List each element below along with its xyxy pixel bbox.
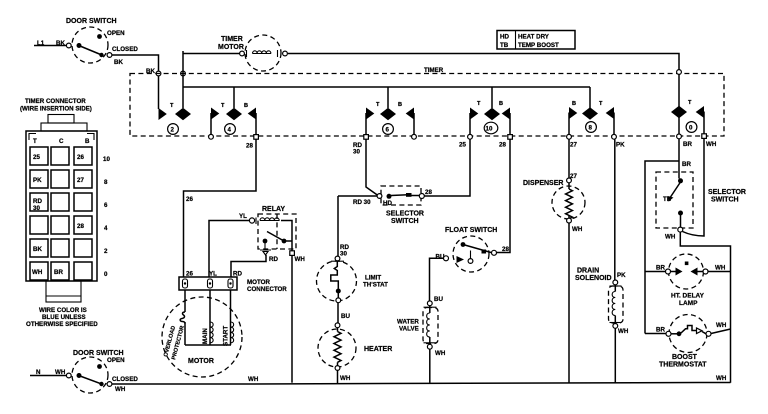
door switch blade (closed position) — [80, 46, 104, 57]
wire: top feed line left segment — [183, 53, 240, 55]
svg-text:WH: WH — [715, 265, 726, 272]
svg-text:30: 30 — [353, 149, 360, 156]
selector TB top contact — [678, 178, 683, 183]
wire: motor winding common bus — [185, 344, 231, 346]
svg-text:WH: WH — [248, 376, 259, 383]
svg-text:BOOST: BOOST — [672, 354, 698, 361]
svg-text:HD: HD — [383, 200, 392, 207]
relay coil — [256, 218, 280, 225]
svg-text:CLOSED: CLOSED — [112, 376, 138, 383]
svg-text:WH: WH — [32, 269, 43, 276]
svg-text:WATER: WATER — [397, 319, 419, 326]
svg-text:26: 26 — [186, 196, 193, 203]
node BK terminal on timer box — [156, 71, 161, 76]
svg-text:T: T — [688, 100, 692, 106]
svg-text:C: C — [59, 138, 64, 145]
svg-text:BR: BR — [656, 265, 665, 272]
wire BR to boost thermostat — [645, 327, 666, 334]
svg-text:L1: L1 — [37, 40, 45, 47]
svg-text:27: 27 — [77, 177, 84, 184]
timer box (dashed enclosure) — [130, 67, 724, 136]
svg-text:(WIRE INSERTION SIDE): (WIRE INSERTION SIDE) — [20, 106, 92, 113]
svg-text:THERMOSTAT: THERMOSTAT — [659, 362, 707, 369]
boost thermostat — [659, 315, 707, 369]
wire: RD 30 drop to limit thermostat — [338, 196, 349, 258]
node: limit thermostat top terminal — [331, 256, 344, 261]
svg-text:BK: BK — [56, 40, 65, 47]
node: boost thermostat right terminal — [706, 322, 727, 336]
limit thermostat element — [331, 261, 341, 298]
timer contact 2 — [159, 76, 192, 134]
svg-text:T: T — [221, 103, 225, 109]
legend box HD/TB — [497, 31, 575, 50]
svg-text:8: 8 — [104, 179, 108, 186]
node: drain solenoid bottom terminal — [610, 323, 629, 336]
note: wire color caption — [26, 307, 98, 328]
svg-text:MAIN: MAIN — [202, 328, 209, 344]
svg-text:0: 0 — [689, 125, 693, 132]
pin labels: RD 30 row 6 — [33, 198, 108, 212]
svg-text:WIRE COLOR IS: WIRE COLOR IS — [39, 307, 87, 314]
svg-text:CONNECTOR: CONNECTOR — [247, 286, 287, 293]
timer contact 4 — [209, 87, 259, 150]
wire 28/26 from contact 4 to motor connector — [184, 139, 257, 277]
selector TB bottom contact — [678, 211, 683, 228]
svg-text:T: T — [477, 101, 481, 107]
svg-text:HT. DELAY: HT. DELAY — [671, 293, 705, 300]
svg-text:28: 28 — [499, 142, 506, 149]
wire lamp to WH bus — [708, 271, 731, 273]
pin labels: 25,26 row 10 — [33, 154, 110, 163]
svg-text:T: T — [376, 102, 380, 108]
svg-text:WH: WH — [55, 369, 66, 376]
svg-text:TIMER CONNECTOR: TIMER CONNECTOR — [25, 98, 86, 105]
svg-text:BR: BR — [54, 269, 63, 276]
svg-text:LIMIT: LIMIT — [365, 275, 381, 282]
svg-text:SWITCH: SWITCH — [391, 218, 419, 225]
lower door switch blade (closed) — [80, 376, 104, 386]
motor START winding — [223, 290, 234, 346]
svg-text:MOTOR: MOTOR — [247, 279, 270, 286]
pin labels: BK row 2 — [33, 246, 108, 255]
wire N lead — [30, 369, 66, 376]
float switch blade — [461, 242, 492, 258]
lamp element (neon) — [671, 262, 704, 276]
svg-text:28: 28 — [425, 189, 432, 196]
boost thermostat element — [671, 326, 706, 337]
drain solenoid L2 — [575, 268, 623, 324]
svg-text:SWITCH: SWITCH — [711, 197, 739, 204]
svg-text:6: 6 — [386, 127, 390, 134]
svg-text:B: B — [499, 101, 503, 107]
wire 27 from contact 8 to dispenser — [569, 139, 577, 180]
dispenser solenoid — [523, 180, 585, 219]
wire WH from contact 9 joining selector output — [683, 139, 705, 236]
svg-text:BU: BU — [341, 313, 350, 320]
water valve coil — [427, 306, 430, 345]
dispenser element — [566, 183, 573, 219]
svg-text:RD: RD — [33, 198, 42, 205]
float switch S4 — [445, 227, 497, 272]
wire BU thermostat to heater — [338, 303, 350, 323]
svg-text:TB: TB — [500, 42, 509, 49]
svg-text:BK: BK — [33, 246, 42, 253]
lower door switch pivot contact — [77, 373, 82, 378]
door switch S1 (upper, L1 side) — [66, 18, 125, 63]
svg-text:25: 25 — [33, 154, 40, 161]
wire dispenser to neutral — [568, 223, 570, 383]
selector switch S5 (TB) — [656, 172, 746, 228]
svg-text:4: 4 — [104, 225, 108, 232]
wire drain solenoid to neutral — [614, 328, 616, 382]
motor connector — [179, 271, 287, 294]
svg-text:DOOR SWITCH: DOOR SWITCH — [66, 18, 117, 25]
svg-text:4: 4 — [228, 127, 232, 134]
svg-text:SOLENOID: SOLENOID — [575, 275, 612, 282]
wire RD from relay to motor connector — [231, 255, 278, 277]
pin labels: 28 row 4 — [77, 223, 108, 232]
timer contact 10 — [459, 87, 512, 149]
svg-text:VALVE: VALVE — [399, 326, 419, 333]
svg-text:BR: BR — [656, 327, 665, 334]
svg-text:FLOAT SWITCH: FLOAT SWITCH — [445, 227, 497, 234]
node: relay WH terminal — [290, 251, 306, 263]
node: lamp right terminal — [703, 265, 726, 275]
svg-text:BR: BR — [683, 141, 692, 148]
node: limit thermostat bottom terminal — [336, 298, 341, 303]
wire: relay coil to WH terminal — [281, 221, 292, 252]
node: lower door switch input terminal — [66, 373, 71, 378]
node: dispenser top terminal — [567, 178, 572, 183]
svg-text:PK: PK — [33, 177, 42, 184]
wire heater to neutral — [337, 370, 339, 383]
wire PK from contact 8 to drain solenoid — [615, 139, 626, 280]
svg-text:WH: WH — [716, 322, 727, 329]
wire: selector WH down to right-side WH bus — [680, 232, 730, 383]
motor overload protector — [180, 290, 185, 345]
lower door switch OPEN contact — [97, 364, 102, 369]
wire BU float switch to water valve — [430, 258, 444, 303]
svg-text:OPEN: OPEN — [107, 30, 125, 37]
wire BR branch to lamp/boost bus — [645, 161, 679, 334]
timer motor coil — [247, 50, 278, 57]
node: dispenser bottom terminal — [567, 218, 583, 233]
svg-text:HEAT DRY: HEAT DRY — [518, 34, 550, 41]
timer contact 9 (heat dry) — [671, 70, 717, 148]
selector switch S3 (RD30/HD) — [353, 186, 424, 225]
svg-text:RD 30: RD 30 — [353, 199, 371, 206]
svg-text:MOTOR: MOTOR — [188, 358, 214, 365]
wire BK from door switch to timer — [112, 55, 159, 75]
node: contact 2 common terminal on timer box — [181, 71, 186, 76]
node: drain solenoid top terminal — [610, 280, 622, 286]
relay contact (N.O.) — [260, 232, 292, 256]
node: float switch center contact — [468, 259, 473, 264]
svg-text:30: 30 — [340, 251, 347, 258]
wire BR to lamp — [645, 265, 666, 272]
node: lower door switch CLOSED terminal — [107, 376, 138, 393]
svg-text:LAMP: LAMP — [679, 300, 698, 307]
timer contact 6 — [353, 87, 416, 156]
ht delay lamp DS1 — [669, 254, 705, 307]
svg-text:28: 28 — [246, 143, 253, 150]
wire: neutral WH bus — [112, 375, 731, 384]
svg-text:0: 0 — [104, 271, 108, 278]
svg-text:WH: WH — [706, 141, 717, 148]
svg-text:WH: WH — [435, 350, 446, 357]
svg-text:WH: WH — [340, 375, 351, 382]
node: selector TB WH terminal — [665, 227, 683, 240]
door switch OPEN contact — [97, 34, 102, 39]
node: float switch right terminal — [492, 250, 497, 255]
timer motor TM — [218, 35, 281, 71]
svg-text:B: B — [572, 101, 576, 107]
svg-text:B: B — [398, 102, 402, 108]
svg-text:SELECTOR: SELECTOR — [386, 211, 424, 218]
svg-text:WH: WH — [295, 256, 306, 263]
timer connector J1 (wire insertion side) — [20, 98, 97, 302]
wire boost thermostat to WH bus — [711, 329, 731, 334]
svg-text:PK: PK — [616, 142, 625, 149]
wire BR from contact 9 to selector switch TB — [679, 139, 691, 179]
wire RD 30 from contact 6 to selector switch — [366, 139, 378, 195]
svg-text:OTHERWISE SPECIFIED: OTHERWISE SPECIFIED — [26, 321, 98, 328]
svg-text:25: 25 — [459, 142, 466, 149]
node: lamp left terminal — [666, 269, 671, 274]
node: timer motor right terminal — [283, 51, 288, 56]
svg-text:2: 2 — [171, 127, 175, 134]
svg-text:CLOSED: CLOSED — [112, 46, 138, 53]
svg-text:BU: BU — [434, 296, 443, 303]
svg-text:26: 26 — [186, 271, 193, 278]
node: float switch left terminal BU — [436, 254, 449, 261]
timer connector pin grid — [30, 147, 92, 280]
node: relay coil YL terminal — [249, 218, 254, 223]
svg-text:26: 26 — [77, 154, 84, 161]
door switch S2 (lower, neutral side) — [72, 350, 125, 393]
svg-text:YL: YL — [239, 213, 247, 220]
door switch pivot contact — [77, 43, 82, 48]
svg-text:OPEN: OPEN — [107, 357, 125, 364]
wire: top feed line to heat-dry contact — [288, 54, 679, 71]
wire 28 from contact 10 to float switch — [497, 139, 511, 253]
selector HD contact — [387, 194, 392, 199]
svg-text:RELAY: RELAY — [262, 206, 285, 213]
svg-text:T: T — [599, 101, 603, 107]
svg-text:WH: WH — [115, 386, 126, 393]
svg-text:START: START — [223, 326, 230, 346]
wire L1 lead — [34, 40, 66, 47]
node: selector output terminal 28 — [419, 189, 432, 199]
svg-text:HD: HD — [500, 34, 509, 41]
svg-text:28: 28 — [502, 246, 509, 253]
svg-text:T: T — [170, 103, 174, 109]
svg-text:HEATER: HEATER — [364, 346, 392, 353]
svg-text:DOOR SWITCH: DOOR SWITCH — [73, 350, 124, 357]
svg-text:BK: BK — [114, 59, 123, 66]
svg-text:WH: WH — [572, 226, 583, 233]
svg-text:BLUE UNLESS: BLUE UNLESS — [42, 314, 86, 321]
wire: node 25 horizontal to limit thermostat — [338, 195, 377, 197]
svg-text:WH: WH — [716, 375, 727, 382]
svg-text:10: 10 — [486, 126, 493, 133]
svg-text:DISPENSER: DISPENSER — [523, 180, 563, 187]
svg-text:B: B — [85, 138, 90, 145]
node: heater top terminal — [335, 323, 340, 328]
svg-text:6: 6 — [104, 202, 108, 209]
heater element — [334, 328, 341, 366]
wire: selector output to timer terminal 25 — [424, 139, 470, 196]
limit thermostat — [317, 261, 389, 301]
svg-text:TEMP BOOST: TEMP BOOST — [518, 42, 559, 49]
node: door switch CLOSED terminal — [107, 46, 138, 66]
svg-text:B: B — [244, 103, 248, 109]
svg-text:30: 30 — [33, 205, 40, 212]
svg-text:YL: YL — [209, 271, 217, 278]
svg-text:TIMER: TIMER — [221, 36, 243, 43]
pin labels: WH,BR row 0 — [32, 269, 108, 278]
node: selector RD30 terminal — [377, 194, 382, 199]
svg-text:RD: RD — [233, 271, 242, 278]
wire water valve to neutral — [429, 349, 431, 383]
svg-text:10: 10 — [103, 156, 110, 163]
svg-text:TH'STAT: TH'STAT — [363, 282, 388, 289]
svg-text:MOTOR: MOTOR — [218, 44, 244, 51]
water valve solenoid L1 — [397, 308, 438, 344]
motor M1 — [162, 297, 242, 377]
float switch left contact arrow — [457, 256, 465, 263]
svg-text:8: 8 — [589, 125, 593, 132]
svg-text:WH: WH — [665, 234, 676, 241]
drain solenoid coil — [612, 285, 615, 324]
wire: timer internal bus — [182, 51, 184, 108]
wire WH from relay to neutral — [291, 255, 293, 382]
pin labels: PK,27 row 8 — [33, 177, 108, 186]
svg-text:RD: RD — [269, 256, 278, 263]
selector blade — [391, 193, 419, 197]
wire YL from relay to motor connector — [209, 213, 249, 277]
motor MAIN winding — [202, 290, 213, 345]
svg-text:PK: PK — [617, 272, 626, 279]
node: water valve bottom terminal — [424, 343, 446, 357]
selector TB blade — [668, 182, 681, 202]
svg-text:DRAIN: DRAIN — [577, 268, 599, 275]
relay K1 — [258, 206, 296, 249]
node: boost thermostat left terminal — [666, 331, 671, 336]
svg-text:WH: WH — [618, 328, 629, 335]
node: water valve top terminal — [424, 301, 437, 307]
svg-text:28: 28 — [77, 223, 84, 230]
node: door switch input terminal — [66, 43, 71, 48]
heater R1 — [318, 329, 392, 367]
node: heater bottom terminal — [335, 366, 351, 382]
svg-text:BU: BU — [436, 254, 445, 261]
svg-text:N: N — [36, 369, 41, 376]
svg-text:2: 2 — [104, 248, 108, 255]
svg-text:SELECTOR: SELECTOR — [708, 189, 746, 196]
node: timer motor left terminal — [240, 51, 245, 56]
svg-text:27: 27 — [570, 142, 577, 149]
timer contact 8 — [567, 87, 626, 149]
svg-text:BR: BR — [682, 161, 691, 168]
svg-text:T: T — [33, 138, 37, 145]
